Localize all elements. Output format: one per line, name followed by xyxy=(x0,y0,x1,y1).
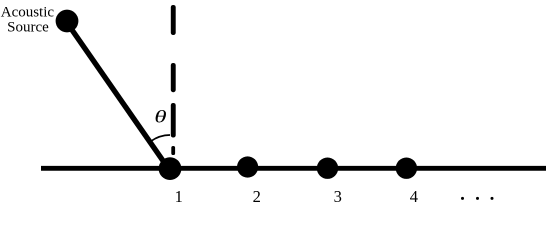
svg-text:Acoustic: Acoustic xyxy=(1,5,55,21)
svg-text:1: 1 xyxy=(175,187,183,206)
svg-text:Source: Source xyxy=(7,19,49,35)
svg-text:2: 2 xyxy=(253,187,261,206)
svg-text:4: 4 xyxy=(410,187,418,206)
svg-text:θ: θ xyxy=(154,107,167,127)
svg-text:3: 3 xyxy=(334,187,342,206)
